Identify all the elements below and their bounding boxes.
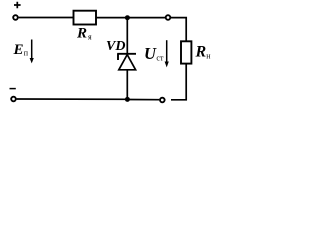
svg-text:п: п <box>24 48 29 57</box>
svg-text:н: н <box>206 52 211 61</box>
zener diode VD cathode bar <box>117 54 136 60</box>
wire Rn down to bottom-right corner <box>171 64 186 100</box>
wire node A down to zener <box>126 18 128 54</box>
wire zener down to node B <box>126 70 128 100</box>
terminal bottom-right <box>160 98 165 103</box>
wire top-left to R1 <box>19 17 74 19</box>
svg-text:ст: ст <box>156 53 164 62</box>
svg-text:VD: VD <box>106 39 125 54</box>
arrow Ust direction <box>165 40 169 67</box>
terminal top-left <box>13 15 18 20</box>
arrow En direction <box>30 40 34 64</box>
label En (source EMF) <box>13 42 29 58</box>
resistor R1 <box>74 11 97 25</box>
zener diode VD triangle <box>119 55 136 70</box>
wire bottom terminal to node B <box>127 99 159 101</box>
svg-text:U: U <box>144 44 157 63</box>
plus label (+ input terminal) <box>14 2 21 9</box>
svg-text:R: R <box>76 25 87 41</box>
minus label (- input terminal) <box>10 88 16 90</box>
wire node B to bottom-left terminal <box>17 98 128 100</box>
label Rn <box>195 44 212 61</box>
node A (junction dot top) <box>125 15 130 20</box>
resistor Rn (load) <box>181 41 191 63</box>
label R1 value <box>76 25 92 41</box>
terminal top-right <box>166 15 171 20</box>
terminal bottom-left <box>11 97 16 102</box>
wire R1 to node A <box>96 17 127 19</box>
svg-text:R: R <box>195 44 207 61</box>
svg-text:E: E <box>13 42 24 58</box>
node B (junction dot bottom) <box>125 97 130 102</box>
label Ust (stabilized voltage) <box>144 44 164 63</box>
wire top-right corner down to Rn <box>171 18 186 42</box>
svg-text:я: я <box>88 33 92 42</box>
wire node A to top-right terminal <box>127 17 165 19</box>
